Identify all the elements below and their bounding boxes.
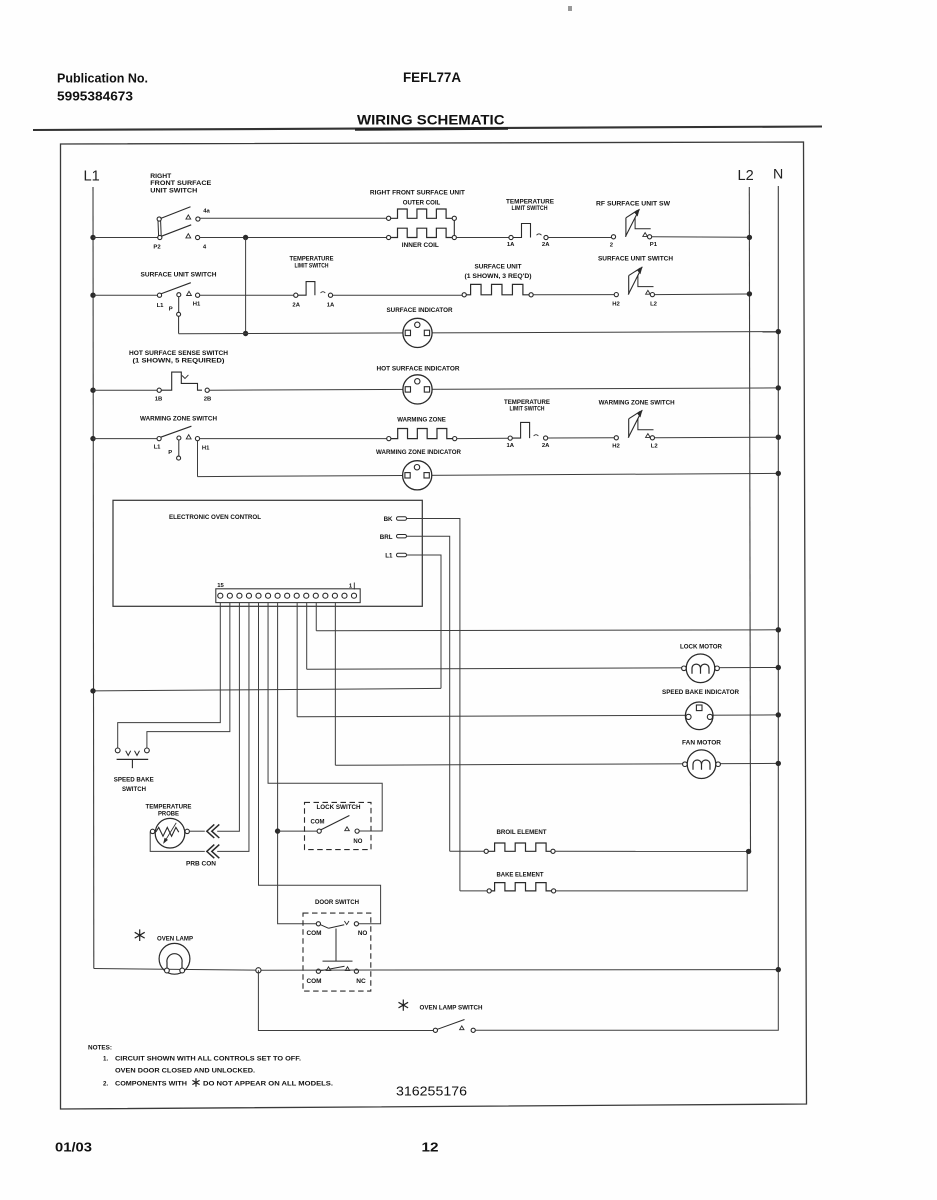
svg-text:1A: 1A [507, 242, 515, 248]
svg-text:(1 SHOWN, 5 REQUIRED): (1 SHOWN, 5 REQUIRED) [133, 357, 225, 364]
svg-text:LIMIT SWITCH: LIMIT SWITCH [512, 205, 548, 212]
svg-text:DOOR SWITCH: DOOR SWITCH [315, 899, 360, 906]
svg-text:H2: H2 [612, 301, 620, 307]
svg-text:1A: 1A [507, 443, 515, 449]
svg-text:BRL: BRL [380, 534, 393, 541]
svg-text:L2: L2 [650, 301, 658, 307]
svg-text:BROIL ELEMENT: BROIL ELEMENT [497, 829, 547, 836]
svg-text:N: N [773, 167, 783, 183]
svg-text:L2: L2 [738, 168, 754, 184]
svg-text:2B: 2B [204, 397, 212, 403]
svg-text:RIGHT FRONT SURFACE UNIT: RIGHT FRONT SURFACE UNIT [370, 189, 465, 196]
svg-text:LIMIT SWITCH: LIMIT SWITCH [510, 406, 545, 413]
svg-text:DO NOT APPEAR ON ALL MODELS.: DO NOT APPEAR ON ALL MODELS. [203, 1081, 333, 1088]
svg-text:HOT SURFACE SENSE SWITCH: HOT SURFACE SENSE SWITCH [129, 350, 229, 357]
svg-text:01/03: 01/03 [55, 1140, 92, 1155]
svg-text:NOTES:: NOTES: [88, 1045, 112, 1052]
svg-text:P: P [168, 450, 172, 456]
svg-text:COMPONENTS WITH: COMPONENTS WITH [115, 1081, 188, 1088]
svg-text:FAN MOTOR: FAN MOTOR [682, 740, 722, 747]
svg-text:WARMING ZONE SWITCH: WARMING ZONE SWITCH [140, 416, 218, 423]
svg-text:LOCK MOTOR: LOCK MOTOR [680, 644, 723, 651]
svg-text:H1: H1 [193, 302, 201, 308]
svg-text:TEMPERATURE: TEMPERATURE [146, 803, 192, 810]
svg-text:RIGHT: RIGHT [150, 173, 171, 180]
svg-text:FRONT SURFACE: FRONT SURFACE [150, 180, 211, 187]
svg-text:2A: 2A [542, 443, 550, 449]
svg-text:HOT SURFACE INDICATOR: HOT SURFACE INDICATOR [377, 366, 461, 373]
svg-text:WARMING ZONE INDICATOR: WARMING ZONE INDICATOR [376, 449, 462, 456]
svg-text:H2: H2 [612, 444, 620, 450]
svg-text:WARMING ZONE SWITCH: WARMING ZONE SWITCH [599, 400, 676, 407]
svg-text:COM: COM [311, 819, 325, 826]
svg-text:15: 15 [217, 583, 224, 589]
svg-text:RF SURFACE UNIT SW: RF SURFACE UNIT SW [596, 201, 670, 208]
svg-text:LIMIT SWITCH: LIMIT SWITCH [295, 262, 329, 269]
svg-text:SWITCH: SWITCH [122, 786, 147, 793]
svg-text:BAKE ELEMENT: BAKE ELEMENT [497, 872, 544, 879]
svg-text:WIRING SCHEMATIC: WIRING SCHEMATIC [357, 113, 505, 128]
svg-text:P2: P2 [153, 245, 161, 251]
svg-text:4a: 4a [203, 209, 210, 215]
svg-text:PRB CON: PRB CON [186, 861, 217, 868]
svg-text:SURFACE UNIT SWITCH: SURFACE UNIT SWITCH [141, 272, 218, 279]
svg-text:WARMING ZONE: WARMING ZONE [397, 416, 446, 423]
svg-text:L1: L1 [385, 553, 393, 560]
svg-text:OVEN LAMP: OVEN LAMP [157, 935, 193, 942]
svg-text:SPEED BAKE INDICATOR: SPEED BAKE INDICATOR [662, 689, 740, 696]
svg-text:Publication No.: Publication No. [57, 71, 148, 86]
svg-text:INNER COIL: INNER COIL [402, 242, 439, 249]
svg-text:FEFL77A: FEFL77A [403, 70, 461, 85]
svg-text:NC: NC [356, 978, 366, 985]
svg-text:OVEN LAMP SWITCH: OVEN LAMP SWITCH [420, 1005, 484, 1012]
svg-text:1B: 1B [155, 397, 163, 403]
svg-text:P: P [169, 307, 173, 313]
svg-text:316255176: 316255176 [396, 1085, 467, 1099]
svg-text:L1: L1 [157, 303, 165, 309]
svg-text:(1 SHOWN, 3 REQ'D): (1 SHOWN, 3 REQ'D) [465, 273, 532, 280]
svg-text:L2: L2 [651, 444, 659, 450]
svg-text:CIRCUIT SHOWN WITH ALL CONTROL: CIRCUIT SHOWN WITH ALL CONTROLS SET TO O… [115, 1056, 301, 1063]
svg-text:1A: 1A [327, 303, 335, 309]
svg-text:H1: H1 [202, 445, 210, 451]
svg-text:LOCK SWITCH: LOCK SWITCH [317, 804, 362, 811]
svg-text:P1: P1 [650, 242, 658, 248]
svg-text:12: 12 [422, 1140, 439, 1155]
svg-text:BK: BK [384, 516, 393, 523]
svg-text:5995384673: 5995384673 [57, 89, 133, 104]
svg-text:SURFACE INDICATOR: SURFACE INDICATOR [387, 307, 454, 314]
svg-text:UNIT SWITCH: UNIT SWITCH [150, 188, 198, 195]
svg-text:SURFACE UNIT SWITCH: SURFACE UNIT SWITCH [598, 255, 674, 262]
svg-text:COM: COM [307, 978, 322, 985]
svg-text:PROBE: PROBE [158, 810, 179, 817]
svg-text:2.: 2. [103, 1081, 108, 1088]
svg-text:NO: NO [353, 838, 362, 845]
svg-text:2A: 2A [292, 303, 300, 309]
svg-text:OUTER COIL: OUTER COIL [403, 200, 441, 207]
svg-text:1.: 1. [103, 1056, 108, 1063]
svg-text:NO: NO [358, 930, 368, 937]
svg-text:SURFACE UNIT: SURFACE UNIT [475, 264, 522, 271]
svg-text:COM: COM [307, 930, 322, 937]
svg-text:SPEED BAKE: SPEED BAKE [114, 777, 154, 784]
svg-text:OVEN DOOR CLOSED AND UNLOCKED.: OVEN DOOR CLOSED AND UNLOCKED. [115, 1068, 255, 1075]
svg-text:L1: L1 [84, 169, 100, 185]
svg-text:ELECTRONIC OVEN CONTROL: ELECTRONIC OVEN CONTROL [169, 514, 261, 521]
svg-text:2A: 2A [542, 242, 550, 248]
svg-text:L1: L1 [154, 445, 162, 451]
